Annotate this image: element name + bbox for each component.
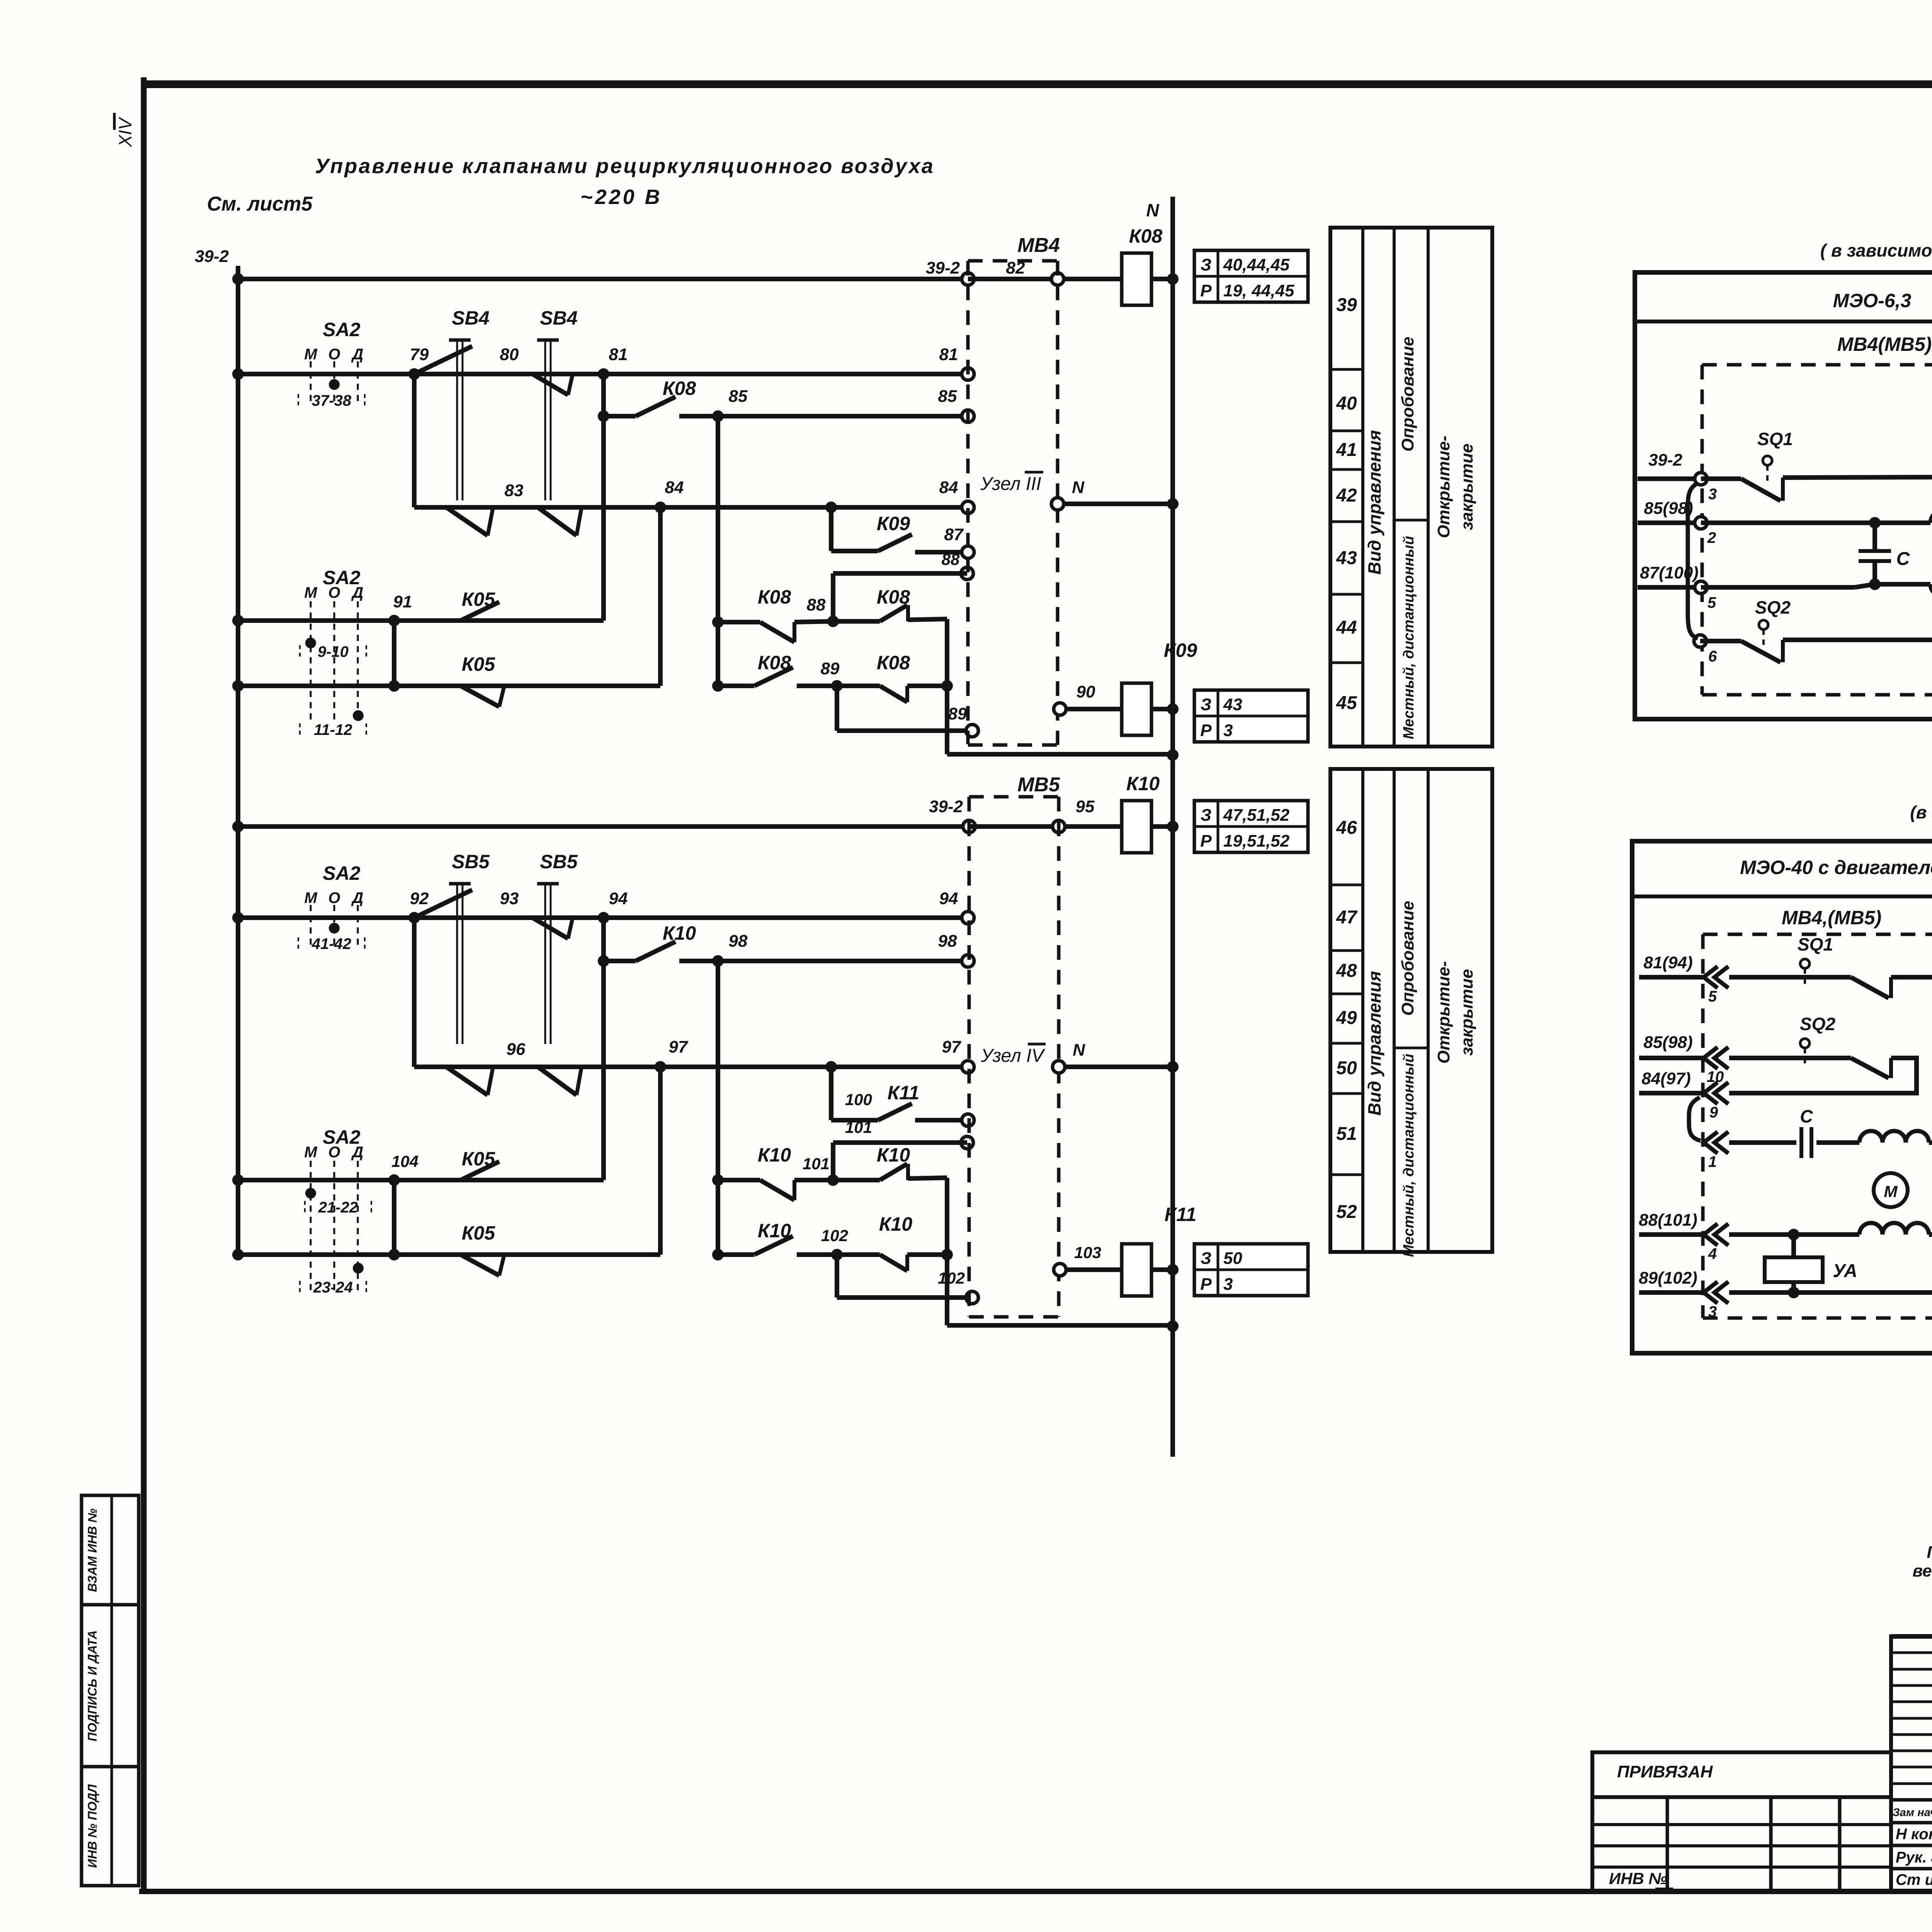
svg-text:79: 79	[410, 345, 429, 364]
node 84	[655, 502, 666, 513]
svg-text:104: 104	[391, 1152, 418, 1170]
svg-text:SQ2: SQ2	[1755, 597, 1791, 617]
mode table frame	[1330, 228, 1492, 747]
svg-text:К09: К09	[877, 513, 910, 534]
svg-text:51: 51	[1336, 1124, 1357, 1144]
svg-text:М: М	[304, 1144, 318, 1161]
svg-text:Управление клапанами рецирку: Управление клапанами рециркуляционного в…	[315, 155, 935, 178]
wire K05 to node94-wire	[503, 1178, 604, 1182]
svg-text:Н контр: Н контр	[1896, 1826, 1932, 1843]
svg-text:81: 81	[939, 345, 958, 364]
svg-text:98: 98	[938, 932, 957, 951]
wire K10 coil to bus N	[1151, 824, 1173, 829]
motor lower winding (МЭО-6,3)	[1875, 582, 1930, 587]
svg-text:Открытие-: Открытие-	[1434, 961, 1453, 1063]
wire lead contact K11	[831, 1118, 878, 1122]
wire node89 down	[835, 686, 839, 731]
wire K09 coil to bus N	[1151, 707, 1173, 711]
wire stub 84(97)	[1639, 1091, 1703, 1095]
junction V1 row89	[712, 680, 724, 692]
terminal circle N (Узел IV)	[1053, 1061, 1065, 1073]
junction on bus N	[1167, 749, 1179, 761]
wire 101 from terminal	[833, 1140, 967, 1145]
node YA bottom	[1788, 1287, 1799, 1298]
svg-text:С: С	[1896, 549, 1910, 569]
svg-text:45: 45	[1336, 693, 1357, 713]
reference table З/Р for K09	[1194, 690, 1308, 742]
contact SQ2: lead and arm (bottom half)	[1729, 1056, 1851, 1060]
svg-text:90: 90	[1077, 682, 1095, 701]
svg-text:84(97): 84(97)	[1641, 1069, 1690, 1088]
wire 90 to coil K09	[1065, 707, 1122, 711]
svg-text:К10: К10	[663, 922, 696, 944]
wire down to contact K09	[829, 507, 833, 551]
wire lead left contact K10 row102	[718, 1252, 754, 1257]
svg-text:К05: К05	[462, 653, 496, 675]
wire riser to node 97	[658, 1067, 663, 1255]
connector 9	[1704, 1082, 1728, 1104]
svg-text:39-2: 39-2	[195, 247, 229, 266]
svg-text:97: 97	[669, 1037, 689, 1056]
svg-text:N: N	[1073, 1041, 1085, 1060]
wire stub 88(101)	[1639, 1232, 1703, 1237]
margin boxes inner divider	[111, 1495, 113, 1886]
junction on bus 39-2	[232, 821, 244, 832]
svg-text:48: 48	[1336, 961, 1357, 981]
contact arm K08 row88 left (NC)	[760, 622, 794, 642]
contact arm K05 (104 row)	[461, 1162, 499, 1180]
wire 104 down	[392, 1180, 396, 1255]
connector 10	[1704, 1047, 1728, 1069]
push button SB5 (first)	[449, 882, 471, 886]
wire SQ1 row to right edge	[1891, 975, 1932, 980]
contact arm K10 row101 right	[880, 1164, 907, 1180]
wire lead right contact K10 row101	[833, 1178, 880, 1182]
mode table row dividers	[1330, 884, 1363, 886]
svg-text:К08: К08	[663, 378, 696, 399]
contact arm SB5 on rail 92-93	[414, 890, 472, 918]
title block top line	[1891, 1634, 1932, 1639]
contact arm K09	[878, 534, 912, 551]
terminal circle 81	[962, 368, 974, 380]
svg-text:39: 39	[1336, 295, 1357, 315]
contact arm SB5-2 lower (rail 97)	[538, 1067, 577, 1095]
variants box (bottom group)	[1632, 841, 1932, 1353]
wire rail K05 upper (104)	[238, 1178, 604, 1182]
svg-text:46: 46	[1336, 818, 1357, 838]
svg-text:Р: Р	[1200, 832, 1212, 850]
junction on bus N	[1167, 498, 1179, 510]
terminal circle 102	[966, 1291, 978, 1304]
svg-text:47,51,52: 47,51,52	[1223, 806, 1290, 825]
junction V3' row102	[941, 1249, 953, 1260]
svg-text:40,44,45: 40,44,45	[1223, 255, 1290, 274]
terminal circle МВ4 right	[1051, 273, 1064, 285]
svg-text:88: 88	[942, 550, 960, 568]
svg-text:19, 44,45: 19, 44,45	[1223, 281, 1294, 300]
svg-text:М: М	[1884, 1182, 1898, 1201]
wire K11 to terminal 100	[915, 1118, 968, 1122]
svg-text:SA2: SA2	[323, 567, 360, 588]
wire to V3'	[907, 1252, 947, 1257]
contact arm K10 row101 left (NC)	[760, 1180, 794, 1200]
wire contact to node 85	[679, 414, 968, 418]
svg-text:9-10: 9-10	[318, 643, 349, 660]
wire node92 down to rail 96	[412, 918, 417, 1067]
svg-text:37-38: 37-38	[312, 392, 352, 409]
svg-text:44: 44	[1336, 617, 1357, 638]
svg-text:21-22: 21-22	[318, 1199, 358, 1216]
svg-text:101: 101	[803, 1155, 830, 1173]
wire to terminal 102	[837, 1295, 972, 1300]
terminal circle МВ4 left (39-2)	[962, 273, 974, 285]
svg-text:МЭО-6,3: МЭО-6,3	[1833, 290, 1912, 311]
svg-text:81(94): 81(94)	[1643, 953, 1692, 972]
wire K11 coil to bus N	[1151, 1267, 1173, 1272]
svg-text:3: 3	[1708, 486, 1717, 503]
wire node94 down	[601, 918, 606, 1180]
wire N row with capacitor and winding	[1729, 1140, 1796, 1145]
svg-text:Местный, дистанционный: Местный, дистанционный	[1401, 1054, 1417, 1257]
push button SB4 (first)	[449, 338, 471, 342]
wire terminal2 to capacitor node	[1701, 520, 1875, 525]
wire to terminal 89	[837, 728, 972, 733]
junction on bus N	[1167, 821, 1179, 832]
svg-text:Р: Р	[1200, 1275, 1212, 1294]
svg-text:102: 102	[938, 1269, 965, 1287]
svg-text:( в зависимости от типа и: ( в зависимости от типа исполнительного …	[1820, 240, 1932, 260]
junction 91-104 link	[388, 680, 400, 692]
svg-text:вентсистема: вентсистема	[1913, 1561, 1932, 1580]
junction 84 to K09 branch	[825, 502, 837, 513]
wire to V3	[907, 684, 947, 688]
svg-text:92: 92	[410, 889, 429, 908]
terminal circle МВ5 right	[1053, 820, 1065, 833]
svg-text:Зам нач отд: Зам нач отд	[1893, 1806, 1932, 1819]
wire node102 down	[835, 1255, 839, 1298]
wire inside Узел III top	[968, 277, 1058, 281]
terminal circle 3	[1695, 473, 1707, 485]
wire K05 lower to 97 riser	[504, 1252, 660, 1257]
contact SQ1: lead and arm	[1701, 476, 1741, 481]
wire 103 to coil K11	[1065, 1267, 1122, 1272]
svg-text:100: 100	[845, 1090, 872, 1109]
junction on bus N	[1167, 273, 1179, 285]
terminal circle 89	[966, 724, 978, 737]
wire to node 101	[794, 1178, 833, 1182]
svg-text:50: 50	[1336, 1058, 1357, 1078]
node 104	[388, 1174, 400, 1186]
wire K05 lower to 84 riser	[504, 684, 660, 688]
svg-text:9: 9	[1709, 1104, 1718, 1121]
wire inside Узел IV top	[969, 824, 1059, 829]
junction V3 row89	[941, 680, 953, 692]
contact arm SB5 (NC) on rail 93-94	[532, 918, 568, 939]
svg-text:ПРИВЯЗАН: ПРИВЯЗАН	[1617, 1762, 1713, 1781]
wire row 3	[1729, 1290, 1932, 1295]
jumper wire terminal 3 to terminal 6	[1688, 483, 1698, 638]
svg-text:SQ2: SQ2	[1800, 1014, 1835, 1034]
junction on bus N	[1167, 1264, 1179, 1276]
svg-text:43: 43	[1336, 548, 1357, 568]
wire V3' down	[945, 1178, 949, 1325]
svg-text:SB5: SB5	[540, 851, 578, 872]
svg-text:МЭО-40 с двигателем ДАУ: МЭО-40 с двигателем ДАУ	[1740, 857, 1932, 878]
svg-text:К11: К11	[1165, 1204, 1197, 1225]
selector switch SA2 (37-38)	[310, 361, 312, 404]
svg-text:3: 3	[1708, 1303, 1717, 1320]
svg-text:89: 89	[948, 704, 967, 723]
terminal circle 5	[1695, 581, 1707, 594]
variants box header line (bottom)	[1632, 895, 1932, 898]
svg-text:МВ4: МВ4	[1017, 234, 1060, 257]
svg-text:95: 95	[1076, 797, 1095, 816]
svg-text:49: 49	[1336, 1008, 1357, 1028]
capacitor C (МЭО-6,3)	[1872, 523, 1877, 551]
node 81	[598, 368, 609, 380]
svg-text:Вид управления: Вид управления	[1364, 430, 1384, 575]
selector switch SA2 (9-10 / 11-12)	[310, 601, 312, 723]
svg-text:Д: Д	[351, 346, 364, 363]
wire lead right contact K08 row88	[833, 619, 880, 624]
junction on bus 39-2	[232, 912, 244, 923]
wire 88 from terminal	[833, 571, 967, 576]
svg-text:89(102): 89(102)	[1639, 1269, 1697, 1287]
mode table row dividers	[1330, 368, 1363, 371]
svg-text:88: 88	[807, 595, 826, 614]
wire V1 from node 85 down	[716, 416, 720, 686]
relay coil K09	[1122, 683, 1151, 735]
wire lead left contact K08 row89	[718, 684, 754, 688]
svg-text:ИНВ № ПОДЛ: ИНВ № ПОДЛ	[85, 1784, 99, 1868]
node 92	[408, 912, 420, 923]
wire lead left contact K10 row101	[718, 1178, 760, 1182]
svg-text:К10: К10	[1126, 773, 1160, 794]
limit switch SQ1 (МЭО-6,3)	[1763, 456, 1772, 465]
svg-text:39-2: 39-2	[929, 797, 963, 816]
Узел IV dashed box	[968, 797, 971, 1317]
limit switch SQ1 (bottom half)	[1800, 959, 1810, 968]
svg-text:К11: К11	[888, 1082, 920, 1104]
terminal circle 101	[961, 1136, 973, 1149]
motor M circle (bottom half)	[1874, 1173, 1908, 1207]
wire rail K05 lower (23-24)	[238, 1252, 660, 1257]
limit switch SQ2 (bottom half)	[1800, 1039, 1810, 1048]
contact arm SB4 on rail 79-80	[414, 346, 472, 374]
winding bumps row 4	[1859, 1223, 1929, 1235]
contact arm K05 lower (NC)	[461, 686, 499, 707]
svg-text:Р: Р	[1200, 281, 1212, 300]
svg-text:К10: К10	[758, 1144, 791, 1166]
connector 3	[1704, 1282, 1728, 1303]
node 98	[712, 955, 724, 967]
wire K05 to node81-wire	[503, 618, 604, 623]
wire node81 down to K05 rail	[601, 374, 606, 621]
wire 91 down to lower K05 rail	[392, 621, 396, 686]
contact arm K10 98-row	[636, 942, 675, 961]
contact arm SB4-2 lower (rail 84)	[538, 507, 577, 536]
svg-text:85(98): 85(98)	[1643, 1033, 1692, 1052]
svg-text:3: 3	[1223, 721, 1233, 740]
contact arm K08 row89 left	[754, 667, 793, 686]
terminal circle 94	[962, 912, 974, 924]
svg-text:SA2: SA2	[323, 862, 360, 884]
neutral bus N (right vertical)	[1170, 197, 1175, 1457]
wire lead contact K09	[831, 549, 878, 553]
junction on bus N	[1167, 1320, 1179, 1332]
svg-text:103: 103	[1074, 1243, 1101, 1262]
junction on bus 39-2	[232, 680, 244, 692]
svg-text:закрытие: закрытие	[1458, 969, 1476, 1056]
wire rail SA2-SB5 row	[238, 915, 968, 920]
svg-text:Узел IV: Узел IV	[981, 1046, 1046, 1066]
selector switch SA2 (41-42)	[310, 905, 312, 947]
wire to corner V3	[908, 619, 947, 620]
loop winding down to row 3	[1929, 1235, 1932, 1293]
svg-text:МВ4,(МВ5): МВ4,(МВ5)	[1782, 907, 1881, 929]
svg-text:М: М	[304, 889, 318, 906]
svg-text:З: З	[1201, 806, 1211, 825]
svg-text:Местный, дистанционный: Местный, дистанционный	[1401, 536, 1417, 739]
svg-text:О: О	[328, 346, 340, 363]
junction on bus N	[1167, 703, 1179, 715]
margin box Подпись и дата	[82, 1605, 139, 1767]
svg-text:93: 93	[500, 889, 519, 908]
terminal circle 97	[962, 1061, 974, 1073]
junction on bus 39-2	[232, 615, 244, 626]
terminal circle 2	[1695, 517, 1707, 529]
wire rail K05 upper	[238, 618, 604, 623]
wire lead left contact K08 row88	[718, 620, 760, 624]
box Привязан	[1592, 1752, 1891, 1797]
variants box header line (top)	[1635, 320, 1932, 323]
node capacitor bottom	[1869, 578, 1881, 590]
svg-text:SA2: SA2	[323, 1126, 360, 1148]
svg-text:3: 3	[1223, 1275, 1233, 1294]
node 97	[655, 1061, 666, 1073]
wire rail 83-84	[414, 505, 968, 510]
wire stub 81(94)	[1639, 975, 1703, 980]
svg-text:97: 97	[942, 1037, 962, 1056]
contact arm K11	[878, 1104, 912, 1120]
terminal circle 84	[962, 501, 974, 514]
terminal circle МВ5 left	[963, 820, 975, 833]
terminal circle 98	[962, 955, 974, 967]
node 88	[827, 616, 839, 627]
svg-text:1: 1	[1708, 1153, 1717, 1170]
wire lead right contact K08 row89	[837, 684, 880, 688]
svg-text:84: 84	[939, 478, 958, 497]
wire rail 96-97	[414, 1065, 968, 1069]
svg-text:О: О	[328, 889, 340, 906]
connector N row left	[1704, 1132, 1728, 1153]
wire lead to contact K08 (85 row)	[604, 414, 636, 418]
svg-text:SB5: SB5	[452, 851, 490, 872]
wire to node 89	[797, 684, 837, 688]
contact arm K08 row89 right (NC)	[880, 686, 907, 702]
svg-text:ПОДПИСЬ И ДАТА: ПОДПИСЬ И ДАТА	[85, 1630, 99, 1742]
svg-text:23-24: 23-24	[313, 1279, 353, 1296]
wire 101 down to node	[831, 1143, 835, 1180]
terminal circle 103	[1054, 1264, 1066, 1276]
svg-text:6: 6	[1708, 648, 1717, 665]
connector 4	[1704, 1224, 1728, 1245]
svg-text:К05: К05	[462, 1222, 496, 1244]
dashed box МВ4 (МЭО-6,3)	[1701, 365, 1704, 695]
contact SQ2: lead and arm	[1700, 639, 1741, 643]
svg-text:83: 83	[505, 481, 524, 500]
reference table З/Р for K10	[1194, 801, 1308, 852]
svg-text:К08: К08	[877, 652, 910, 673]
node 91	[388, 615, 400, 626]
wire stub 85(98)	[1638, 520, 1701, 525]
svg-text:Узел III: Узел III	[980, 474, 1041, 494]
contact arm K05 lower (NC, lower ladder)	[461, 1255, 499, 1276]
svg-text:МВ5: МВ5	[1017, 774, 1060, 796]
svg-text:98: 98	[729, 932, 748, 951]
svg-text:М: М	[304, 584, 318, 601]
wire down to contact K11	[829, 1067, 833, 1120]
svg-text:94: 94	[609, 889, 628, 908]
wire to node 88	[794, 621, 833, 622]
svg-text:См. лист5: См. лист5	[207, 193, 313, 215]
svg-text:2: 2	[1707, 529, 1716, 546]
svg-text:85: 85	[729, 387, 748, 406]
contact arm K05 upper	[461, 602, 499, 621]
junction 97 to K11 branch	[825, 1061, 837, 1073]
contact arm K10 row102 right (NC)	[880, 1255, 907, 1271]
svg-text:К10: К10	[879, 1213, 913, 1235]
motor upper winding (МЭО-6,3)	[1875, 520, 1930, 525]
svg-text:96: 96	[507, 1040, 526, 1059]
wire V3' bottom link to bus N	[947, 1323, 1173, 1328]
limit switch SQ2 (МЭО-6,3)	[1759, 620, 1768, 629]
svg-text:81: 81	[609, 345, 628, 364]
terminal circle N (Узел III)	[1051, 498, 1064, 510]
svg-text:К08: К08	[1129, 225, 1163, 247]
node 101	[827, 1174, 839, 1186]
svg-text:42: 42	[1336, 485, 1357, 506]
wire to corner V3'	[908, 1178, 947, 1179]
junction on wire 94-down	[598, 955, 609, 967]
terminal circle 6	[1694, 635, 1706, 647]
svg-text:39-2: 39-2	[1648, 451, 1683, 469]
drawing frame bottom border	[139, 1889, 1932, 1894]
terminal circle 90	[1054, 703, 1066, 715]
contact arm SB4-1 lower (rail 83)	[446, 507, 488, 536]
svg-text:102: 102	[821, 1226, 848, 1245]
wire rail SA2-SB4 row	[238, 372, 968, 376]
node 94	[598, 912, 609, 923]
winding bumps N row	[1859, 1131, 1929, 1143]
relay coil K11	[1122, 1244, 1151, 1296]
connector 5	[1704, 966, 1728, 988]
drawing frame left border	[141, 77, 147, 1891]
junction on bus 39-2	[232, 1249, 244, 1260]
junction V1' row102	[712, 1249, 724, 1260]
svg-text:М: М	[304, 346, 318, 363]
node capacitor top	[1869, 517, 1881, 529]
relay coil K10	[1122, 801, 1151, 853]
svg-text:91: 91	[393, 592, 412, 611]
svg-text:19,51,52: 19,51,52	[1223, 832, 1290, 850]
margin box Взам инв №	[82, 1495, 139, 1605]
svg-text:К08: К08	[758, 586, 791, 608]
wire K09 to terminal 87	[915, 550, 968, 554]
svg-text:Опробование: Опробование	[1398, 337, 1417, 451]
supply bus 39-2 (left vertical)	[236, 266, 240, 1257]
junction on wire 81-down	[598, 410, 609, 422]
